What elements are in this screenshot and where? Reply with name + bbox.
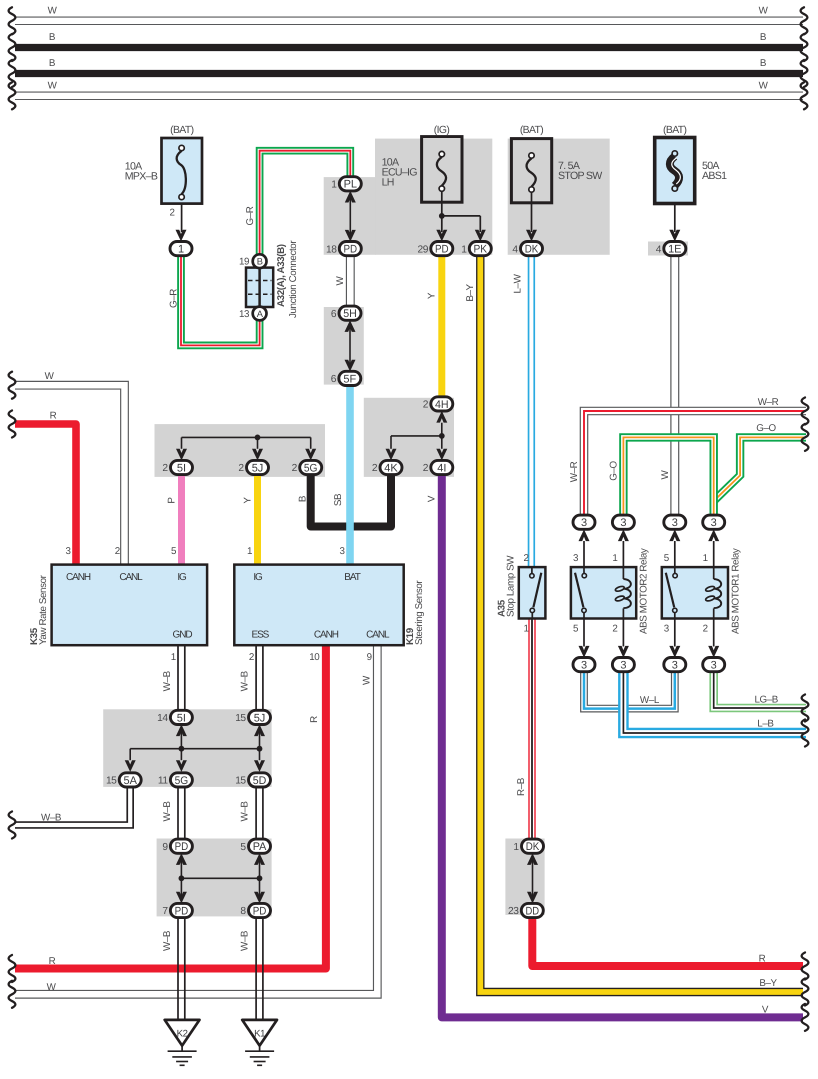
svg-text:W–B: W–B bbox=[41, 812, 62, 823]
svg-text:10: 10 bbox=[309, 652, 320, 663]
svg-text:LG–B: LG–B bbox=[754, 695, 778, 706]
svg-text:Yaw Rate Sensor: Yaw Rate Sensor bbox=[38, 574, 49, 645]
svg-text:1: 1 bbox=[703, 553, 708, 564]
svg-text:LH: LH bbox=[382, 177, 394, 189]
svg-text:V: V bbox=[427, 495, 438, 502]
svg-text:PD: PD bbox=[175, 905, 189, 917]
svg-text:5: 5 bbox=[240, 842, 246, 853]
svg-text:DD: DD bbox=[526, 905, 540, 917]
svg-text:Junction Connector: Junction Connector bbox=[288, 240, 299, 318]
svg-text:Y: Y bbox=[243, 497, 254, 504]
svg-text:5A: 5A bbox=[123, 775, 137, 787]
svg-text:BAT: BAT bbox=[344, 572, 360, 583]
svg-text:W: W bbox=[660, 469, 671, 479]
svg-text:3: 3 bbox=[581, 660, 587, 672]
svg-text:G–R: G–R bbox=[245, 206, 256, 225]
svg-text:7: 7 bbox=[162, 906, 168, 917]
svg-text:2: 2 bbox=[423, 463, 429, 474]
svg-text:IG: IG bbox=[177, 572, 187, 583]
svg-text:5I: 5I bbox=[177, 712, 186, 724]
svg-text:2: 2 bbox=[612, 624, 617, 635]
svg-text:DK: DK bbox=[526, 841, 540, 853]
svg-text:SB: SB bbox=[333, 493, 344, 506]
svg-text:W–B: W–B bbox=[162, 670, 173, 691]
svg-text:(BAT): (BAT) bbox=[170, 125, 193, 136]
svg-text:1: 1 bbox=[331, 180, 337, 191]
svg-text:B: B bbox=[257, 257, 263, 267]
svg-text:15: 15 bbox=[235, 713, 246, 724]
svg-text:PD: PD bbox=[344, 244, 358, 256]
svg-text:1: 1 bbox=[513, 842, 519, 853]
svg-text:R: R bbox=[759, 954, 766, 965]
svg-text:2: 2 bbox=[162, 463, 168, 474]
svg-text:PD: PD bbox=[175, 841, 189, 853]
svg-text:R: R bbox=[49, 956, 56, 967]
svg-text:2: 2 bbox=[238, 463, 244, 474]
svg-text:2: 2 bbox=[372, 463, 378, 474]
svg-text:IG: IG bbox=[253, 572, 263, 583]
svg-text:15: 15 bbox=[235, 776, 246, 787]
svg-text:CANH: CANH bbox=[66, 572, 91, 583]
svg-text:STOP SW: STOP SW bbox=[558, 170, 602, 182]
svg-text:3: 3 bbox=[672, 517, 678, 529]
svg-text:4I: 4I bbox=[437, 462, 446, 474]
svg-text:B: B bbox=[49, 32, 56, 43]
svg-text:Stop Lamp SW: Stop Lamp SW bbox=[506, 555, 517, 617]
svg-text:G–O: G–O bbox=[609, 460, 620, 480]
svg-text:3: 3 bbox=[620, 517, 626, 529]
svg-text:15: 15 bbox=[106, 776, 117, 787]
svg-text:DK: DK bbox=[525, 244, 539, 256]
svg-text:K2: K2 bbox=[177, 1029, 188, 1040]
svg-text:5G: 5G bbox=[304, 462, 318, 474]
svg-text:W: W bbox=[335, 275, 346, 285]
svg-text:CANL: CANL bbox=[119, 572, 143, 583]
svg-text:2: 2 bbox=[523, 553, 528, 564]
svg-text:K1: K1 bbox=[254, 1029, 265, 1040]
svg-text:W–B: W–B bbox=[240, 930, 251, 951]
svg-text:1: 1 bbox=[461, 244, 467, 255]
svg-text:4H: 4H bbox=[435, 399, 449, 411]
svg-text:W–B: W–B bbox=[162, 801, 173, 822]
svg-text:MPX–B: MPX–B bbox=[125, 171, 158, 183]
svg-text:G–O: G–O bbox=[756, 423, 776, 434]
svg-text:PA: PA bbox=[253, 841, 267, 853]
svg-text:B: B bbox=[760, 32, 767, 43]
svg-text:3: 3 bbox=[711, 517, 717, 529]
svg-text:5F: 5F bbox=[343, 373, 356, 385]
svg-text:Steering Sensor: Steering Sensor bbox=[414, 580, 425, 645]
svg-text:CANL: CANL bbox=[366, 630, 390, 641]
svg-text:ESS: ESS bbox=[252, 630, 270, 641]
svg-text:PK: PK bbox=[474, 244, 488, 256]
svg-text:1: 1 bbox=[171, 652, 176, 663]
svg-text:W: W bbox=[48, 5, 58, 16]
svg-text:2: 2 bbox=[115, 546, 120, 557]
svg-text:W: W bbox=[47, 982, 57, 993]
svg-text:W–R: W–R bbox=[569, 461, 580, 482]
svg-text:5D: 5D bbox=[253, 775, 267, 787]
svg-text:1: 1 bbox=[247, 546, 252, 557]
svg-text:Y: Y bbox=[427, 292, 438, 299]
svg-text:2: 2 bbox=[169, 207, 174, 218]
svg-text:29: 29 bbox=[418, 244, 429, 255]
svg-text:1E: 1E bbox=[668, 244, 681, 256]
svg-text:R: R bbox=[309, 716, 320, 723]
svg-text:3: 3 bbox=[672, 660, 678, 672]
svg-text:9: 9 bbox=[162, 842, 168, 853]
svg-text:CANH: CANH bbox=[314, 630, 339, 641]
svg-text:W: W bbox=[48, 80, 58, 91]
svg-text:L–W: L–W bbox=[513, 273, 524, 293]
svg-text:(BAT): (BAT) bbox=[663, 125, 686, 136]
svg-text:P: P bbox=[167, 497, 178, 504]
svg-text:3: 3 bbox=[581, 517, 587, 529]
svg-text:W: W bbox=[45, 371, 55, 382]
svg-text:B: B bbox=[298, 495, 309, 502]
svg-text:6: 6 bbox=[331, 374, 337, 385]
svg-text:B: B bbox=[760, 58, 767, 69]
svg-text:14: 14 bbox=[157, 713, 168, 724]
svg-text:4: 4 bbox=[512, 244, 518, 255]
svg-text:W–B: W–B bbox=[240, 670, 251, 691]
svg-text:ABS MOTOR1 Relay: ABS MOTOR1 Relay bbox=[731, 548, 742, 634]
svg-text:W: W bbox=[759, 5, 769, 16]
svg-text:1: 1 bbox=[523, 624, 528, 635]
svg-text:1: 1 bbox=[178, 244, 184, 256]
svg-text:PL: PL bbox=[344, 179, 357, 191]
svg-text:1: 1 bbox=[612, 553, 617, 564]
svg-text:PD: PD bbox=[435, 244, 449, 256]
svg-text:PD: PD bbox=[253, 905, 267, 917]
svg-text:W: W bbox=[362, 675, 373, 685]
svg-text:18: 18 bbox=[326, 244, 337, 255]
svg-text:(IG): (IG) bbox=[434, 125, 450, 136]
svg-text:4: 4 bbox=[656, 244, 662, 255]
svg-text:B: B bbox=[49, 58, 56, 69]
svg-text:GND: GND bbox=[173, 630, 193, 641]
svg-text:B–Y: B–Y bbox=[465, 283, 476, 301]
svg-text:4K: 4K bbox=[384, 462, 398, 474]
svg-text:ABS MOTOR2 Relay: ABS MOTOR2 Relay bbox=[639, 548, 650, 634]
svg-text:11: 11 bbox=[158, 776, 168, 787]
svg-text:R–B: R–B bbox=[516, 777, 527, 796]
svg-text:W: W bbox=[759, 80, 769, 91]
svg-text:5J: 5J bbox=[252, 462, 264, 474]
svg-text:2: 2 bbox=[292, 463, 298, 474]
svg-text:B–Y: B–Y bbox=[759, 978, 777, 989]
svg-text:L–B: L–B bbox=[757, 718, 774, 729]
svg-text:W–B: W–B bbox=[240, 801, 251, 822]
svg-text:ABS1: ABS1 bbox=[702, 170, 727, 182]
svg-text:13: 13 bbox=[239, 309, 250, 320]
svg-text:19: 19 bbox=[239, 257, 249, 268]
svg-text:5G: 5G bbox=[175, 775, 189, 787]
svg-text:6: 6 bbox=[331, 309, 337, 320]
svg-text:V: V bbox=[762, 1005, 769, 1016]
svg-text:9: 9 bbox=[367, 652, 372, 663]
svg-text:R: R bbox=[50, 411, 57, 422]
svg-text:2: 2 bbox=[423, 400, 429, 411]
svg-text:5I: 5I bbox=[177, 462, 186, 474]
svg-text:W–L: W–L bbox=[640, 695, 660, 706]
svg-text:3: 3 bbox=[711, 660, 717, 672]
svg-text:5J: 5J bbox=[254, 712, 266, 724]
svg-text:2: 2 bbox=[249, 652, 254, 663]
svg-text:23: 23 bbox=[508, 906, 519, 917]
svg-text:G–R: G–R bbox=[168, 289, 179, 308]
svg-text:3: 3 bbox=[620, 660, 626, 672]
svg-text:8: 8 bbox=[240, 906, 246, 917]
svg-text:5H: 5H bbox=[343, 308, 357, 320]
svg-text:W–R: W–R bbox=[758, 397, 779, 408]
svg-text:A32(A), A33(B): A32(A), A33(B) bbox=[276, 244, 287, 307]
svg-text:(BAT): (BAT) bbox=[520, 125, 543, 136]
svg-text:2: 2 bbox=[703, 624, 708, 635]
svg-text:W–B: W–B bbox=[162, 930, 173, 951]
